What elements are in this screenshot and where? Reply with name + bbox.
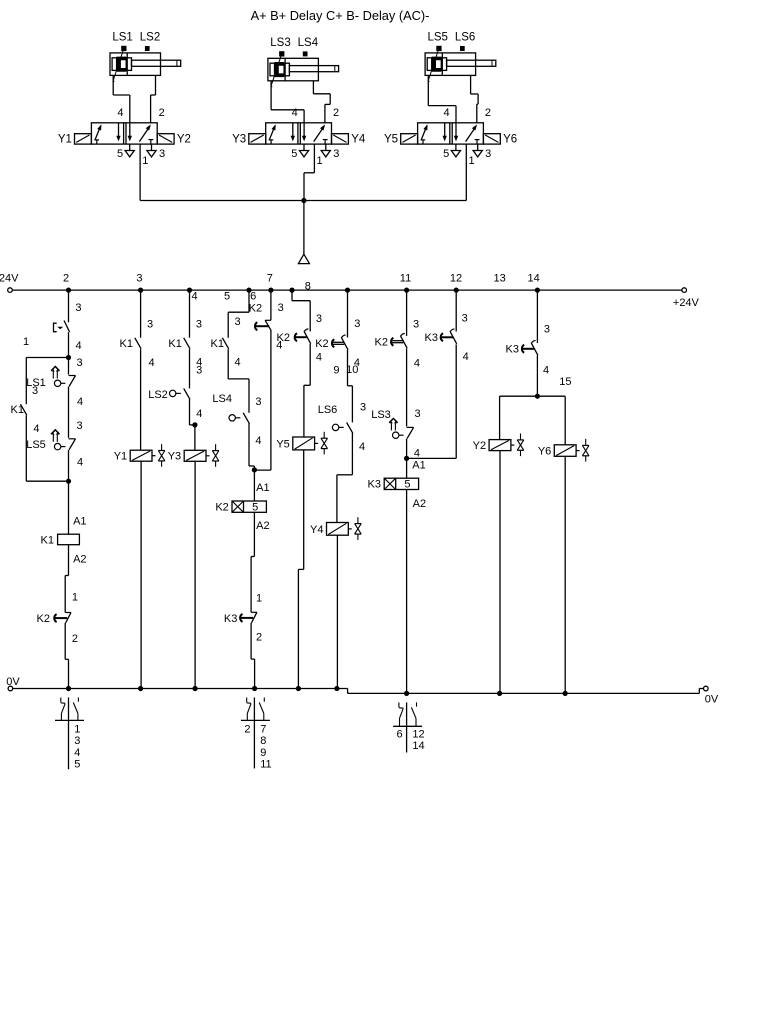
node junction above Y3 [192,422,197,427]
svg-text:5: 5 [224,291,230,303]
wire contact K2 to 0V rail, pin 2 [65,623,78,689]
relay K1 contact cross-reference table [55,698,84,771]
svg-text:K3: K3 [425,332,438,344]
wire coil K2 pin A2 [251,512,270,612]
svg-text:4: 4 [77,396,83,408]
wire pin label 4 [69,332,82,357]
svg-text:6: 6 [250,291,256,303]
wire down to coil Y2 [499,396,501,439]
cylinder C (3A1) piston rod [447,60,496,66]
relay contact (NC, delayed) [254,320,271,331]
valve V1 right position 4-5 path [128,123,132,142]
svg-text:5: 5 [291,148,297,160]
relay contact K2 (NO, delayed) [315,335,348,350]
valve V3 right position 1-2 flow arrow [466,124,477,141]
svg-text:4: 4 [74,747,80,759]
svg-text:A1: A1 [73,515,86,527]
svg-text:3: 3 [333,148,339,160]
wire valve V3 port 1 to air supply bus [465,144,467,200]
wire coil K1 pin A2 [65,545,86,613]
svg-text:4: 4 [196,408,202,420]
svg-text:K2: K2 [37,613,50,625]
svg-text:Y4: Y4 [351,134,366,146]
wire cylinder A left port to valve V1 port 4 [113,75,130,122]
wire branch 1 top [23,336,69,404]
wire coil Y4 to 0V rail [336,535,338,688]
wire cylinder A right port to valve V1 port 2 [151,75,156,122]
wire rung 2 upper segment [69,290,82,322]
svg-text:3: 3 [196,318,202,330]
svg-text:Y3: Y3 [232,134,246,146]
air supply junction [301,198,306,203]
svg-text:2: 2 [63,273,69,285]
svg-text:11: 11 [260,759,271,771]
svg-text:+24V: +24V [673,297,700,309]
cylinder A (1A1) piston rod [132,60,181,66]
svg-text:5: 5 [74,759,80,771]
svg-text:LS3: LS3 [371,409,391,421]
svg-text:K3: K3 [368,479,381,491]
valve V2 left position flow arrow [269,124,276,140]
wire contact K2 to LS6 [348,350,367,422]
relay contact K2 (NC, delayed) [37,613,71,626]
svg-text:13: 13 [493,273,505,285]
wire rung 7 upper [249,290,284,320]
valve V1 port 3 exhaust [147,144,156,157]
relay contact K2 (NO, delayed) [375,333,408,348]
svg-text:Y5: Y5 [276,438,289,450]
limit switch contact LS5 (NC shown actuated) [26,430,75,451]
svg-text:K2: K2 [315,338,328,350]
wire contact K2 to LS3, pin 4 [407,348,420,426]
svg-text:2: 2 [72,633,78,645]
svg-text:14: 14 [412,740,424,752]
svg-text:LS5: LS5 [26,439,46,451]
svg-text:2: 2 [485,107,491,119]
svg-text:4: 4 [76,340,82,352]
svg-text:14: 14 [527,273,539,285]
cylinder B (2A1) piston rod [289,66,338,72]
wire rung 3 upper [141,290,154,338]
svg-text:K3: K3 [506,344,519,356]
valve V2 left position down path [291,123,295,142]
svg-text:3: 3 [234,316,240,328]
svg-text:A+ B+ Delay C+ B- Delay (AC)-: A+ B+ Delay C+ B- Delay (AC)- [251,8,430,23]
svg-text:LS1: LS1 [112,32,132,44]
svg-text:Y2: Y2 [473,440,486,452]
wire coil Y5 to 0V rail [298,450,303,689]
limit switch marker LS4 [303,52,307,56]
wire number labels on +24V rail [63,273,540,303]
relay contact K3 (NO, delayed) [425,329,457,344]
power terminal 0V left [6,676,20,691]
svg-text:3: 3 [74,735,80,747]
junctions on 0V rail [66,686,568,696]
svg-text:2: 2 [333,107,339,119]
svg-text:A1: A1 [256,482,269,494]
valve V2 right position 4-5 path [302,123,306,142]
svg-text:LS5: LS5 [427,32,447,44]
svg-text:Y6: Y6 [538,446,551,458]
svg-text:2: 2 [159,107,165,119]
solenoid Y5 [401,134,418,144]
svg-text:4: 4 [255,435,261,447]
svg-text:4: 4 [234,356,240,368]
svg-text:LS4: LS4 [212,393,232,405]
valve V3 body [418,123,484,144]
svg-text:K1: K1 [168,338,181,350]
svg-text:5: 5 [404,479,410,491]
valve V1 port labels [117,107,165,167]
svg-text:11: 11 [400,273,411,285]
node junction rung11/rung12 [404,456,409,461]
wire cylinder B right port to valve V2 port 2 [313,81,330,123]
svg-text:A2: A2 [413,498,426,510]
node junction rung2/branch [66,355,71,360]
valve V1 right position blocked port [149,140,154,144]
svg-text:K1: K1 [11,404,24,416]
valve V1 port 5 exhaust [125,144,134,157]
limit switch contact LS1 (NC shown actuated) [26,367,75,389]
limit switch marker LS3 [280,52,284,56]
svg-text:LS2: LS2 [140,32,160,44]
wire valve V2 port 1 to air supply bus [304,144,314,200]
svg-text:LS6: LS6 [455,32,475,44]
svg-text:4: 4 [292,107,298,119]
air supply bus wire [140,200,466,202]
svg-text:3: 3 [415,408,421,420]
valve V1 right position 1-2 flow arrow [139,124,150,141]
valve V3 right position blocked port [475,140,480,144]
wire coil K3 to 0V rail, pin A2 [407,489,427,693]
power terminal 0V right [704,686,719,705]
svg-text:9: 9 [260,747,266,759]
junctions on +24V rail [66,288,540,293]
solenoid Y1 [75,134,92,144]
wire branch 1 bottom [26,415,68,481]
solenoid coil Y2 [473,434,524,457]
solenoid coil Y1 [114,444,165,467]
relay contact K2 (NO, delayed) [277,329,311,344]
valve V2 body [266,123,332,144]
svg-text:15: 15 [559,376,571,388]
svg-text:3: 3 [136,273,142,285]
relay contact K1 (NO) [168,338,190,350]
valve V2 port 5 exhaust [299,144,308,157]
svg-text:A2: A2 [73,553,86,565]
relay K3 contact cross-reference table [393,702,425,752]
svg-text:1: 1 [468,155,474,167]
wire contact to coil Y5, pin 4 [304,344,310,437]
svg-text:Y3: Y3 [168,451,181,463]
wire coil Y2 to 0V rail [499,451,501,694]
svg-text:4: 4 [414,447,420,459]
svg-text:4: 4 [463,351,469,363]
svg-text:Y5: Y5 [384,134,398,146]
wire rung 8 jog [292,290,322,331]
wire valve V1 port 1 to air supply bus [139,144,141,200]
wire contact K3 to 0V rail, pin 2 [251,623,262,689]
svg-text:3: 3 [360,402,366,414]
valve V2 port 3 exhaust [321,144,330,157]
cylinder C (3A1) body [425,53,476,76]
valve V3 port 3 exhaust [473,144,482,157]
svg-text:1: 1 [72,592,78,604]
svg-text:K2: K2 [249,302,262,314]
valve V2 right position blocked port [323,140,328,144]
svg-text:1: 1 [23,336,29,348]
svg-text:Y6: Y6 [503,134,517,146]
svg-text:3: 3 [147,318,153,330]
valve V1 body [91,123,157,144]
wire LS5 to junction [69,450,84,481]
node junction branch rejoin [66,479,71,484]
limit switch contact LS2 (NO) [148,388,190,400]
svg-text:3: 3 [462,313,468,325]
relay contact K1 (NO) [120,338,142,350]
node junction rung6/rung7 [252,467,257,472]
svg-text:LS2: LS2 [148,389,168,401]
wire contact K1 to LS2, pins 4/3 [190,349,203,388]
svg-text:4: 4 [117,107,123,119]
svg-text:8: 8 [260,735,266,747]
wire coil Y1 to 0V rail [140,461,142,688]
svg-text:+24V: +24V [0,272,19,284]
wire cylinder B left port to valve V2 port 4 [271,81,304,123]
svg-text:1: 1 [317,155,323,167]
solenoid coil Y5 [276,432,327,455]
wire rung 6 with jog [228,290,249,338]
svg-text:3: 3 [485,148,491,160]
svg-text:6: 6 [397,728,403,740]
svg-text:K2: K2 [277,332,290,344]
0V return rail [13,689,704,694]
solenoid Y4 [332,134,349,144]
limit switch marker LS5 [437,46,441,50]
svg-text:2: 2 [256,632,262,644]
valve V1 left position blocked port [95,140,99,144]
valve V1 left position down path [116,123,120,142]
valve V2 port labels [291,107,339,167]
solenoid coil Y4 [310,517,361,540]
svg-text:3: 3 [413,318,419,330]
wire LS4 to junction, pin 4 [249,424,261,470]
+24V supply rail [12,289,681,291]
wire LS3 to junction, pin 4 [407,439,420,460]
svg-text:4: 4 [359,441,365,453]
pushbutton S1 contact (NO) [64,321,70,333]
valve V1 left position flow arrow [95,124,102,140]
svg-text:1: 1 [74,723,80,735]
svg-text:A2: A2 [256,520,269,532]
relay contact K1 (NO) [211,338,229,350]
solenoid coil Y6 [538,439,589,462]
svg-text:3: 3 [354,318,360,330]
cylinder A (1A1) body [110,53,161,76]
wire junction to timer coil K3, pin A1 [407,458,426,478]
wire cylinder C left port to valve V3 port 4 [428,75,456,122]
svg-text:4: 4 [148,357,154,369]
svg-text:3: 3 [159,148,165,160]
svg-text:3: 3 [278,302,284,314]
svg-text:LS4: LS4 [298,37,319,49]
svg-text:12: 12 [450,273,462,285]
relay contact K3 (NO, delayed) [506,341,538,356]
svg-text:3: 3 [75,302,81,314]
svg-text:4: 4 [414,357,420,369]
relay K2 contact cross-reference table [241,698,272,771]
wire contact K1 jog back, pin 4 [228,349,261,413]
wire junction to air source [303,201,305,255]
valve V2 left position blocked port [269,140,273,144]
wire rung 4 upper [190,290,202,338]
limit switch contact LS6 (NO) [318,404,353,434]
svg-text:3: 3 [544,323,550,335]
svg-text:3: 3 [32,385,38,397]
relay contact K1 (NO) [11,404,27,416]
power terminal +24V right [673,288,700,309]
valve V2 right position 1-2 flow arrow [314,124,325,141]
valve V3 right position 4-5 path [454,123,458,142]
svg-text:5: 5 [252,502,258,514]
svg-text:5: 5 [443,148,449,160]
svg-text:2: 2 [244,723,250,735]
svg-text:3: 3 [316,313,322,325]
svg-text:4: 4 [316,352,322,364]
timer relay coil K2 [215,501,266,514]
svg-text:1: 1 [256,592,262,604]
wire coil Y3 to 0V rail [194,462,196,689]
solenoid Y3 [249,134,266,144]
cylinder A (1A1) sensor link line [113,48,124,82]
wire LS1 to LS5 [69,387,84,438]
svg-text:12: 12 [412,728,424,740]
wire cylinder C right port to valve V3 port 2 [471,75,479,122]
wire rung 14 upper [537,290,550,343]
valve V3 port 5 exhaust [451,144,460,157]
limit switch contact LS4 (NO) [212,393,249,424]
wire branch to Y2 and Y6 [500,395,566,397]
svg-text:8: 8 [305,281,311,293]
limit switch marker LS6 [461,47,465,51]
svg-text:K1: K1 [41,534,54,546]
svg-text:LS3: LS3 [270,37,290,49]
svg-text:4: 4 [444,107,450,119]
wire rung 12 upper [456,290,468,331]
svg-text:0V: 0V [705,693,719,705]
wire contact K1 to coil Y1, pin 4 [141,349,155,450]
valve V3 left position blocked port [421,140,425,144]
power terminal +24V left [0,272,19,292]
svg-text:7: 7 [260,723,266,735]
wire rung 10 upper [348,290,361,337]
relay coil K1 [41,534,80,546]
wire junction to coil Y3 [194,425,196,450]
wire LS6 to coil Y4, pin 4 [337,433,365,523]
wire junction to coil K1, pin A1 [69,481,87,534]
solenoid Y2 [157,134,174,144]
svg-text:4: 4 [192,291,198,303]
limit switch marker LS1 [122,46,126,50]
pushbutton S1 manual actuator [54,323,64,332]
valve V3 port labels [443,107,491,167]
svg-text:Y4: Y4 [310,524,323,536]
wire LS2 down, pin 4 [190,399,203,425]
wire down to coil Y6 [564,396,566,445]
svg-text:Y1: Y1 [58,134,72,146]
valve V3 left position flow arrow [421,124,428,140]
wire junction to timer coil K2, pin A1 [254,470,269,501]
svg-text:1: 1 [142,155,148,167]
wire rung 7 lower, pin 4 [254,331,282,470]
node junction rung13/14/15 [535,394,540,399]
svg-text:5: 5 [117,148,123,160]
svg-text:3: 3 [76,420,82,432]
svg-text:K2: K2 [375,337,388,349]
wire rung 12 link [407,344,457,458]
svg-text:K1: K1 [211,338,224,350]
pin labels 4/9/10 [316,352,360,377]
cylinder B (2A1) sensor link line [271,53,282,87]
svg-text:7: 7 [267,273,273,285]
svg-text:4: 4 [33,423,39,435]
compressed air source symbol [298,254,309,263]
timer relay coil K3 [368,478,419,491]
svg-text:Y1: Y1 [114,451,127,463]
wire contact K3 to junction, pins 4/15 [537,355,571,396]
svg-text:A1: A1 [412,459,425,471]
svg-text:4: 4 [77,457,83,469]
svg-text:K3: K3 [224,613,237,625]
wire rung 11 upper [407,290,419,336]
limit switch marker LS2 [145,47,149,51]
solenoid coil Y3 [168,444,219,467]
solenoid Y6 [483,134,500,144]
svg-text:3: 3 [255,396,261,408]
svg-text:K1: K1 [120,338,133,350]
cylinder C (3A1) sensor link line [428,48,439,82]
svg-text:K2: K2 [215,502,228,514]
limit switch contact LS3 (NC shown actuated) [371,409,413,438]
svg-text:3: 3 [196,365,202,377]
wire rung2 to LS1 [69,357,83,374]
wire coil Y6 to 0V rail [564,456,566,693]
cylinder B (2A1) body [268,58,319,81]
relay contact K3 (NC, delayed) [224,612,257,625]
svg-text:LS6: LS6 [318,404,338,416]
svg-text:0V: 0V [6,676,20,688]
svg-text:3: 3 [76,357,82,369]
svg-text:Y2: Y2 [177,134,191,146]
svg-text:9: 9 [333,365,339,377]
svg-text:4: 4 [543,365,549,377]
valve V3 left position down path [443,123,447,142]
